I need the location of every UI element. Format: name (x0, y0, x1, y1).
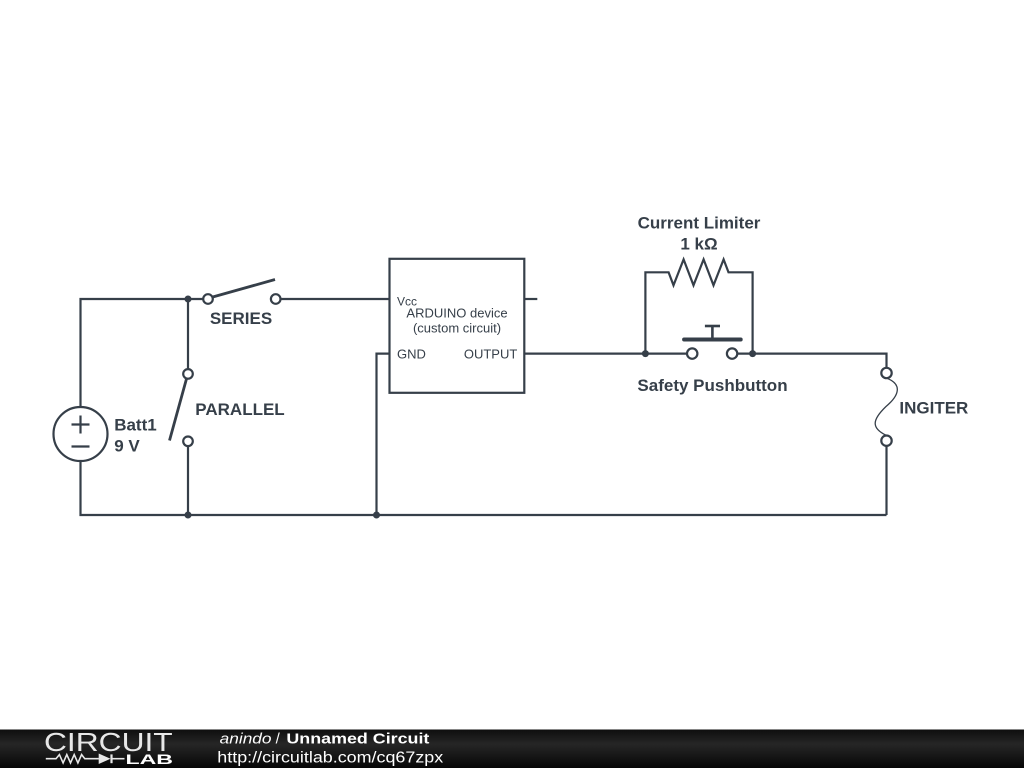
svg-text:INGITER: INGITER (899, 399, 968, 418)
svg-text:Current Limiter: Current Limiter (638, 213, 761, 232)
svg-text:PARALLEL: PARALLEL (195, 400, 284, 419)
svg-text:(custom circuit): (custom circuit) (413, 320, 501, 335)
svg-text:Unnamed Circuit: Unnamed Circuit (286, 731, 429, 748)
svg-text:LAB: LAB (126, 751, 174, 767)
svg-text:SERIES: SERIES (210, 309, 272, 328)
svg-text:GND: GND (397, 346, 426, 361)
svg-text:OUTPUT: OUTPUT (464, 346, 518, 361)
svg-text:9 V: 9 V (114, 437, 140, 456)
svg-text:Batt1: Batt1 (114, 416, 157, 435)
svg-text:1 kΩ: 1 kΩ (680, 235, 717, 254)
svg-text:http://circuitlab.com/cq67zpx: http://circuitlab.com/cq67zpx (217, 750, 443, 767)
svg-text:Safety Pushbutton: Safety Pushbutton (637, 376, 787, 395)
svg-text:anindo: anindo (220, 731, 272, 748)
svg-text:ARDUINO device: ARDUINO device (406, 305, 507, 320)
